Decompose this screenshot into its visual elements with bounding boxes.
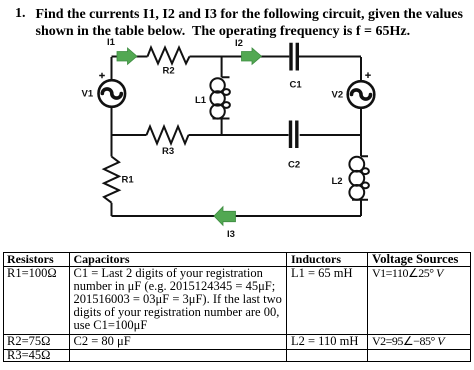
svg-text:V1: V1 xyxy=(82,89,94,100)
svg-text:L2: L2 xyxy=(332,176,343,187)
svg-text:R1: R1 xyxy=(122,175,135,186)
svg-text:R3: R3 xyxy=(162,146,174,157)
svg-text:V2: V2 xyxy=(332,90,344,101)
svg-text:C2: C2 xyxy=(288,160,300,171)
svg-text:I3: I3 xyxy=(227,229,235,240)
svg-text:R2: R2 xyxy=(163,66,175,77)
svg-text:I1: I1 xyxy=(107,37,116,48)
svg-text:L1: L1 xyxy=(195,95,207,106)
svg-text:I2: I2 xyxy=(235,38,243,49)
svg-text:C1: C1 xyxy=(290,80,303,91)
